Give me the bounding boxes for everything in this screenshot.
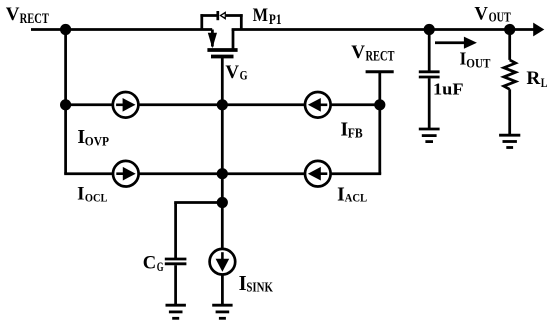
svg-text:RECT: RECT — [20, 11, 49, 27]
svg-text:OUT: OUT — [489, 9, 511, 24]
ground (I_SINK) — [212, 305, 232, 318]
svg-text:OCL: OCL — [85, 191, 108, 204]
svg-text:RECT: RECT — [366, 49, 395, 65]
VRECT supply T-bar (right) — [366, 70, 394, 73]
svg-text:C: C — [143, 253, 156, 274]
resistor R_L — [504, 30, 516, 135]
M_P1 body diode — [218, 11, 226, 20]
wire top rail right (M_P1 drain to VOUT arrow) — [232, 28, 535, 31]
wire CG branch horizontal — [174, 201, 222, 204]
capacitor C_G — [165, 259, 187, 305]
ground (C_G) — [166, 305, 186, 318]
svg-text:V: V — [351, 42, 365, 63]
junction node VG rail / CG branch — [217, 197, 228, 208]
junction node VG rail / row2 — [217, 168, 228, 179]
wire row1 horizontal (IOVP/IFB row) — [66, 103, 380, 106]
svg-text:OVP: OVP — [85, 134, 109, 148]
current source I_SINK — [210, 249, 236, 305]
ground (R_L) — [499, 135, 520, 147]
current source I_OVP — [113, 92, 139, 118]
junction node VOUT / 1uF — [424, 24, 435, 35]
I_OUT arrow — [435, 37, 477, 49]
svg-text:G: G — [157, 260, 164, 274]
current source I_ACL — [305, 161, 331, 187]
svg-text:OUT: OUT — [466, 56, 490, 70]
wire CG branch vertical — [174, 203, 177, 259]
junction node right rail / row1 — [374, 99, 385, 110]
wire left rail vertical — [64, 30, 67, 174]
junction node VRECT / left rail — [60, 24, 71, 35]
wire gate rail vertical (VG node down to ISINK) — [221, 58, 224, 249]
svg-text:L: L — [541, 76, 548, 90]
M_P1 drain lead — [232, 30, 235, 51]
M_P1 gate plate — [211, 55, 234, 59]
svg-text:G: G — [240, 68, 248, 82]
ground (1uF) — [419, 129, 440, 142]
svg-text:V: V — [6, 4, 20, 25]
svg-text:R: R — [526, 68, 541, 89]
wire top rail left (VRECT to M_P1 source) — [31, 28, 212, 31]
svg-text:SINK: SINK — [246, 279, 273, 294]
current source I_OCL — [113, 161, 139, 187]
capacitor 1uF — [419, 30, 440, 129]
output arrowhead on VOUT wire — [533, 23, 544, 37]
wire row2 horizontal (IOCL/IACL row) — [64, 172, 381, 175]
svg-text:M: M — [253, 5, 269, 26]
svg-text:1uF: 1uF — [433, 79, 464, 98]
svg-text:FB: FB — [348, 126, 363, 141]
svg-text:ACL: ACL — [345, 193, 368, 205]
M_P1 channel bar — [207, 48, 237, 52]
junction node left rail / row1 — [60, 99, 71, 110]
svg-text:V: V — [225, 62, 239, 83]
wire right rail vertical (VRECT supply down to IACL row) — [378, 72, 381, 174]
junction node VOUT / RL — [504, 24, 515, 35]
transistor M_P1 body-diode loop wires — [200, 14, 242, 29]
svg-text:I: I — [337, 184, 345, 205]
svg-text:I: I — [77, 183, 84, 204]
junction node VG rail / row1 — [217, 99, 228, 110]
svg-text:V: V — [474, 4, 488, 25]
M_P1 source lead with arrow — [211, 30, 214, 47]
current source I_FB — [305, 92, 331, 118]
svg-text:P1: P1 — [269, 12, 282, 28]
